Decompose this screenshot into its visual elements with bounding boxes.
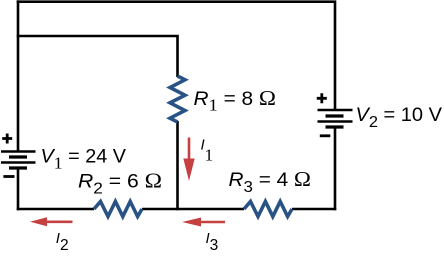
- wire bottom right segment: [292, 208, 336, 211]
- current arrow I3 (left): [182, 218, 225, 227]
- svg-text:I3: I3: [206, 230, 219, 254]
- svg-text:I1: I1: [201, 137, 214, 165]
- wire middle lower (R1 to node b): [176, 121, 179, 210]
- svg-text:V2 = 10 V: V2 = 10 V: [356, 105, 443, 131]
- wire bottom left segment: [17, 208, 94, 211]
- V1 minus terminal: [3, 175, 14, 178]
- wire inner horizontal and middle upper (node a to R1): [17, 36, 178, 77]
- svg-text:V1 = 24 V: V1 = 24 V: [41, 147, 127, 173]
- current arrow I2 (left): [30, 217, 73, 226]
- svg-text:R2 = 6 Ω: R2 = 6 Ω: [78, 169, 162, 198]
- V1 plus terminal: [2, 134, 12, 144]
- svg-text:R1 = 8 Ω: R1 = 8 Ω: [194, 86, 277, 115]
- V2 minus terminal: [320, 134, 331, 137]
- V2 plus terminal: [317, 93, 327, 103]
- wire bottom middle segment: [142, 208, 244, 211]
- resistor R2 (6 ohm, bottom left): [94, 202, 142, 217]
- svg-text:I2: I2: [56, 230, 69, 254]
- wire top and right upper (node to V2 +): [17, 0, 335, 110]
- wire left upper (top node to V1 +): [17, 0, 20, 151]
- battery V1: [1, 152, 36, 169]
- resistor R3 (4 ohm, bottom right): [244, 202, 292, 217]
- battery V2: [318, 110, 353, 127]
- svg-text:R3 = 4 Ω: R3 = 4 Ω: [229, 167, 312, 196]
- wire right lower (V2 - to bottom): [334, 127, 337, 210]
- resistor R1 (8 ohm, vertical): [170, 76, 185, 122]
- current arrow I1 (down): [183, 138, 194, 182]
- wire left lower (V1 - to bottom): [17, 168, 20, 210]
